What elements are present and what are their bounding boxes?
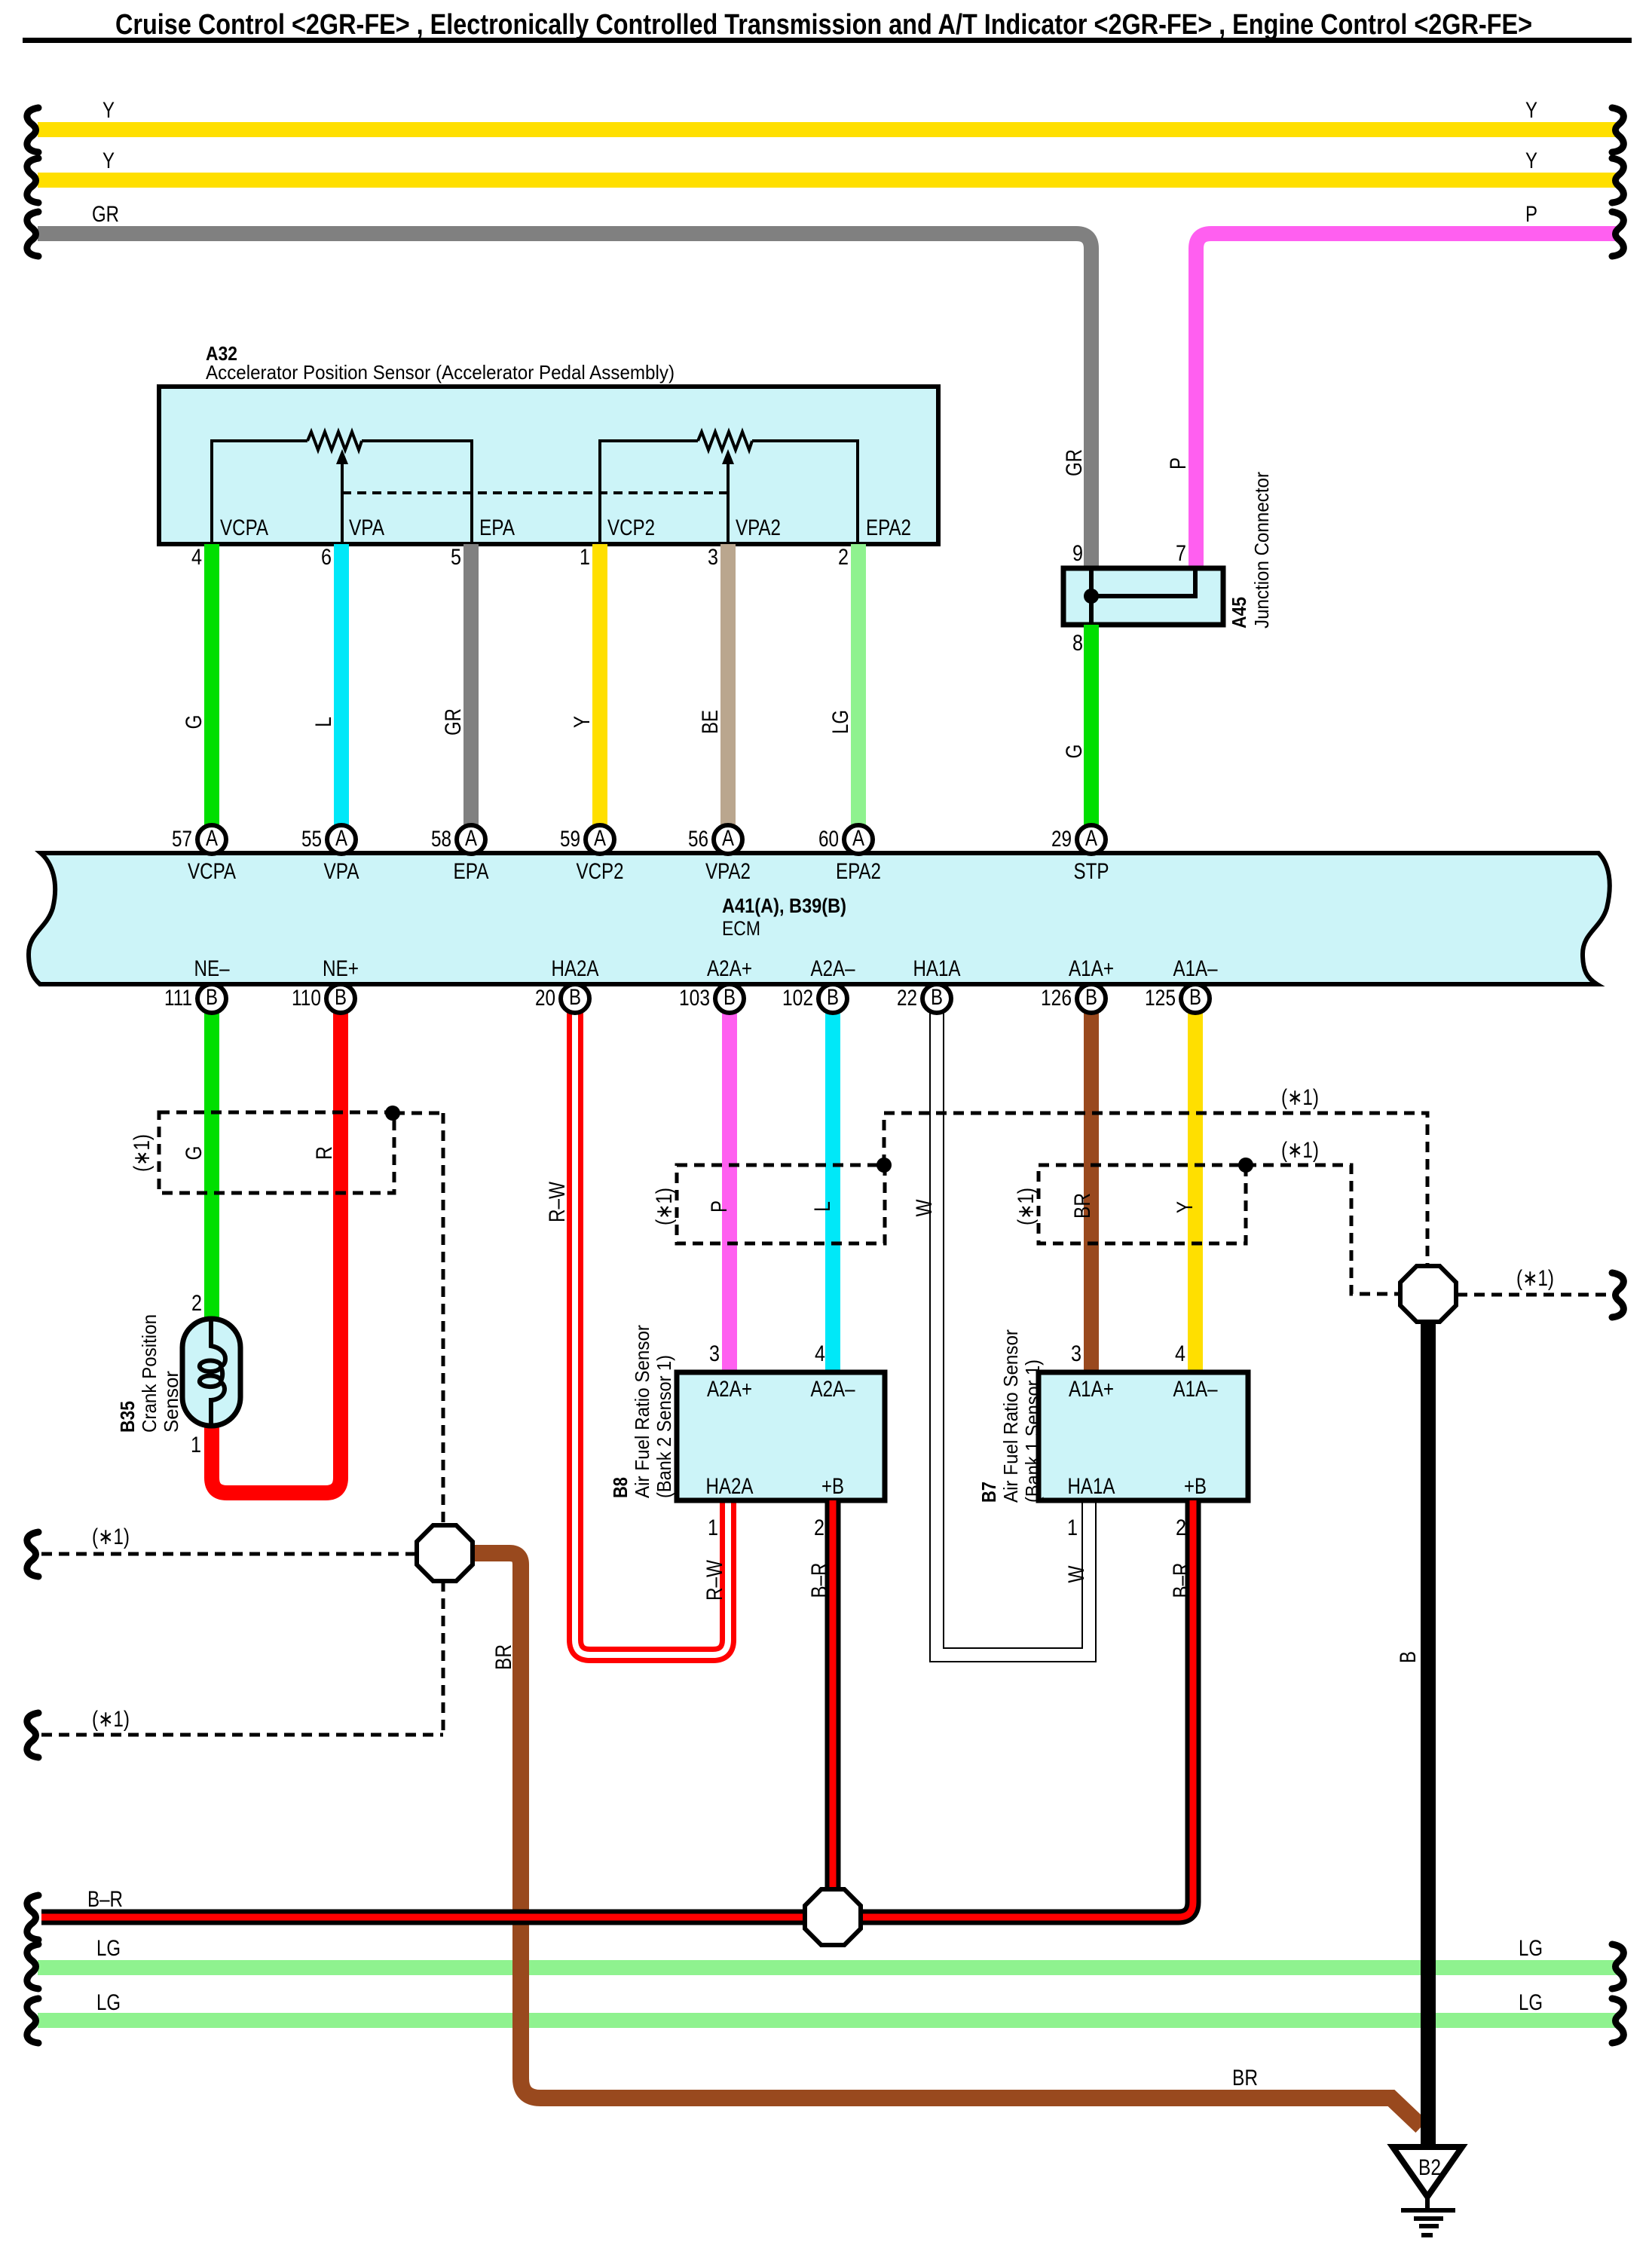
- wire R-W HA2A: [575, 1013, 728, 1655]
- svg-text:A2A–: A2A–: [811, 956, 855, 981]
- wire B-R from B8 +B: [825, 1500, 841, 1889]
- svg-text:8: 8: [1072, 631, 1083, 656]
- wire Y A1A-: [1188, 1013, 1203, 1372]
- svg-text:Y: Y: [102, 98, 115, 123]
- svg-text:VCP2: VCP2: [577, 859, 624, 884]
- octagon splice B-R: [805, 1889, 861, 1945]
- svg-text:HA1A: HA1A: [1068, 1474, 1115, 1499]
- wire BE VPA2: [720, 544, 736, 827]
- svg-text:A1A–: A1A–: [1173, 1377, 1218, 1402]
- svg-text:HA2A: HA2A: [706, 1474, 754, 1499]
- svg-text:1: 1: [580, 545, 590, 570]
- dashed route 1: [884, 1113, 1427, 1266]
- wire G VCPA: [204, 544, 219, 827]
- svg-text:NE–: NE–: [194, 956, 230, 981]
- svg-text:BR: BR: [1070, 1193, 1095, 1219]
- svg-text:2: 2: [1176, 1515, 1186, 1540]
- A32 Accelerator Position Sensor box: [159, 387, 938, 544]
- svg-text:+B: +B: [821, 1474, 844, 1499]
- svg-text:B: B: [1189, 985, 1201, 1010]
- B7 rotated label: [977, 1329, 1044, 1503]
- svg-text:22: 22: [897, 986, 917, 1011]
- svg-text:A2A–: A2A–: [811, 1377, 855, 1402]
- svg-text:A: A: [594, 826, 606, 851]
- svg-text:Junction Connector: Junction Connector: [1250, 472, 1273, 628]
- A45 internal junction dot: [1084, 589, 1099, 604]
- svg-text:STP: STP: [1074, 859, 1109, 884]
- svg-text:A: A: [335, 826, 347, 851]
- svg-text:R: R: [312, 1146, 337, 1160]
- svg-text:A: A: [206, 826, 218, 851]
- svg-text:Cruise Control <2GR-FE> , Elec: Cruise Control <2GR-FE> , Electronically…: [115, 9, 1532, 41]
- svg-text:1: 1: [191, 1433, 201, 1457]
- svg-text:(∗1): (∗1): [652, 1188, 677, 1225]
- svg-text:(∗1): (∗1): [1516, 1266, 1554, 1291]
- svg-text:P: P: [1166, 457, 1191, 469]
- svg-text:2: 2: [814, 1515, 824, 1540]
- svg-text:LG: LG: [1519, 1936, 1543, 1961]
- wire B-R main horizontal: [41, 1500, 1193, 1917]
- wiper arrow 2: [722, 449, 734, 464]
- svg-text:A: A: [1085, 826, 1097, 851]
- wire BR from splice: [469, 1553, 1421, 2127]
- ECM bottom pin numbers: [164, 986, 1176, 1011]
- svg-text:B: B: [724, 985, 736, 1010]
- wire GR EPA: [463, 544, 479, 827]
- svg-text:R–W: R–W: [702, 1559, 727, 1601]
- wire B to ground: [1421, 1320, 1436, 2147]
- svg-text:B2: B2: [1418, 2155, 1441, 2180]
- svg-text:2: 2: [191, 1291, 202, 1316]
- svg-text:EPA: EPA: [454, 859, 489, 884]
- svg-text:3: 3: [708, 545, 718, 570]
- svg-text:Accelerator Position Sensor (A: Accelerator Position Sensor (Accelerator…: [206, 361, 675, 384]
- ECM top pin numbers: [172, 827, 1072, 852]
- svg-text:Y: Y: [102, 148, 115, 173]
- svg-text:ECM: ECM: [722, 917, 760, 940]
- svg-text:(∗1): (∗1): [1281, 1085, 1319, 1110]
- svg-text:R–W: R–W: [545, 1181, 570, 1222]
- svg-text:(∗1): (∗1): [92, 1525, 130, 1549]
- svg-text:7: 7: [1176, 541, 1186, 566]
- svg-text:29: 29: [1051, 827, 1072, 852]
- svg-text:125: 125: [1145, 986, 1176, 1011]
- svg-text:(Bank 2 Sensor 1): (Bank 2 Sensor 1): [653, 1355, 675, 1498]
- svg-text:2: 2: [838, 545, 849, 570]
- svg-text:VPA: VPA: [324, 859, 359, 884]
- svg-text:102: 102: [782, 986, 813, 1011]
- ECM top connector circles (A): [197, 825, 1106, 854]
- svg-text:B: B: [206, 985, 218, 1010]
- svg-text:W: W: [912, 1199, 937, 1217]
- wire W HA1A: [937, 1013, 1089, 1655]
- B7 air fuel ratio sensor box: [1039, 1372, 1248, 1500]
- svg-text:Y: Y: [1525, 148, 1537, 173]
- dashed horizontal to octagon: [41, 1552, 417, 1556]
- A45 rotated label: [1228, 472, 1273, 628]
- A45 internal bus: [1091, 570, 1195, 622]
- svg-text:6: 6: [321, 545, 332, 570]
- svg-text:L: L: [810, 1201, 835, 1212]
- svg-text:VCPA: VCPA: [188, 859, 236, 884]
- dashed horizontal lower: [41, 1733, 443, 1737]
- svg-text:B7: B7: [977, 1482, 1000, 1503]
- svg-text:NE+: NE+: [323, 956, 359, 981]
- wire LG bottom 2: [38, 2013, 1619, 2028]
- svg-text:A1A+: A1A+: [1069, 1377, 1114, 1402]
- svg-text:VPA2: VPA2: [705, 859, 751, 884]
- svg-text:A41(A), B39(B): A41(A), B39(B): [722, 895, 846, 917]
- svg-text:(∗1): (∗1): [1014, 1188, 1039, 1225]
- svg-text:B8: B8: [609, 1477, 632, 1498]
- svg-text:G: G: [182, 715, 206, 729]
- octagon splice right: [1400, 1266, 1456, 1322]
- wire break symbols top left: [27, 108, 38, 152]
- dashed box left (*1) around G,R: [159, 1112, 394, 1193]
- svg-text:VPA: VPA: [349, 515, 384, 540]
- wire LG bottom 1: [38, 1960, 1619, 1975]
- wiper arrow 1: [336, 449, 348, 464]
- svg-text:A: A: [722, 826, 734, 851]
- svg-text:110: 110: [292, 986, 321, 1011]
- svg-text:A: A: [852, 826, 864, 851]
- svg-text:55: 55: [301, 827, 322, 852]
- svg-text:A2A+: A2A+: [707, 956, 752, 981]
- svg-text:Air Fuel Ratio Sensor: Air Fuel Ratio Sensor: [631, 1325, 653, 1498]
- svg-text:111: 111: [164, 986, 192, 1011]
- svg-text:EPA2: EPA2: [866, 515, 911, 540]
- break symbols bottom: [27, 1895, 38, 1940]
- svg-text:B: B: [1085, 985, 1097, 1010]
- svg-text:(∗1): (∗1): [1281, 1138, 1319, 1163]
- svg-text:Air Fuel Ratio Sensor: Air Fuel Ratio Sensor: [999, 1329, 1022, 1503]
- svg-text:LG: LG: [96, 1990, 121, 2015]
- svg-text:A1A–: A1A–: [1173, 956, 1218, 981]
- B8 rotated label: [609, 1325, 675, 1498]
- svg-text:A: A: [465, 826, 477, 851]
- potentiometer 2: [600, 432, 858, 544]
- dashed route 2: [1246, 1165, 1400, 1294]
- svg-text:1: 1: [708, 1515, 718, 1540]
- svg-text:B: B: [335, 985, 347, 1010]
- wire GR bus: [38, 234, 1091, 570]
- svg-text:126: 126: [1041, 986, 1072, 1011]
- svg-text:1: 1: [1067, 1515, 1078, 1540]
- svg-text:4: 4: [1175, 1341, 1185, 1366]
- svg-text:B35: B35: [116, 1401, 139, 1433]
- svg-text:B–R: B–R: [87, 1887, 123, 1912]
- svg-text:EPA2: EPA2: [836, 859, 881, 884]
- svg-text:BR: BR: [1232, 2066, 1258, 2090]
- svg-text:A1A+: A1A+: [1069, 956, 1114, 981]
- svg-text:57: 57: [172, 827, 192, 852]
- wire R NE+ below ECM: [212, 1013, 341, 1493]
- svg-text:L: L: [311, 717, 336, 727]
- svg-text:9: 9: [1072, 541, 1083, 566]
- svg-text:P: P: [707, 1200, 732, 1213]
- svg-text:(∗1): (∗1): [92, 1707, 130, 1732]
- title underline: [23, 38, 1632, 43]
- svg-text:B: B: [569, 985, 581, 1010]
- wire Y VCP2: [592, 544, 607, 827]
- svg-text:LG: LG: [1519, 1990, 1543, 2015]
- svg-text:Y: Y: [570, 716, 595, 728]
- wire Y bus 2: [38, 173, 1619, 188]
- svg-text:VPA2: VPA2: [736, 515, 781, 540]
- wire P A2A+: [722, 1013, 737, 1372]
- svg-text:58: 58: [431, 827, 451, 852]
- wire BR A1A+: [1084, 1013, 1099, 1372]
- dashed vertical line: [442, 1113, 445, 1525]
- svg-text:103: 103: [679, 986, 710, 1011]
- svg-text:20: 20: [535, 986, 555, 1011]
- potentiometer 1: [212, 432, 472, 544]
- ground symbol B2: [1393, 2147, 1462, 2197]
- wire LG EPA2: [851, 544, 866, 827]
- svg-text:Sensor: Sensor: [160, 1371, 182, 1433]
- svg-text:GR: GR: [92, 202, 119, 227]
- svg-text:LG: LG: [828, 710, 853, 734]
- wire G NE- below ECM: [204, 1013, 219, 1319]
- svg-text:B: B: [827, 985, 839, 1010]
- octagon splice 1: [417, 1525, 473, 1581]
- svg-text:A2A+: A2A+: [707, 1377, 752, 1402]
- svg-text:3: 3: [1071, 1341, 1081, 1366]
- svg-text:GR: GR: [441, 708, 466, 736]
- svg-text:60: 60: [818, 827, 839, 852]
- svg-text:P: P: [1525, 202, 1537, 227]
- wire G STP: [1084, 625, 1099, 827]
- svg-text:G: G: [1062, 745, 1087, 759]
- wire L VPA: [334, 544, 349, 827]
- svg-text:W: W: [1064, 1565, 1089, 1583]
- svg-text:(∗1): (∗1): [130, 1134, 154, 1172]
- svg-text:HA1A: HA1A: [913, 956, 961, 981]
- svg-text:A45: A45: [1228, 597, 1250, 628]
- svg-text:HA2A: HA2A: [552, 956, 599, 981]
- svg-text:4: 4: [815, 1341, 825, 1366]
- svg-text:56: 56: [688, 827, 708, 852]
- svg-text:Y: Y: [1173, 1201, 1198, 1213]
- svg-text:BE: BE: [698, 710, 723, 734]
- A45 junction connector box: [1063, 568, 1223, 625]
- svg-text:B: B: [1396, 1651, 1421, 1663]
- svg-text:59: 59: [560, 827, 580, 852]
- svg-text:(Bank 1 Sensor 1): (Bank 1 Sensor 1): [1021, 1359, 1044, 1503]
- B35 coil symbol: [200, 1320, 225, 1424]
- svg-text:VCPA: VCPA: [220, 515, 268, 540]
- dashed wiper link: [342, 491, 728, 494]
- wire P bus: [1196, 234, 1617, 570]
- B35 rotated label: [116, 1314, 182, 1433]
- dashed link to vertical: [394, 1112, 443, 1115]
- svg-text:5: 5: [451, 545, 461, 570]
- wire Y bus 1: [38, 122, 1619, 137]
- junction dot on dashed box: [385, 1106, 400, 1121]
- wire L A2A-: [825, 1013, 840, 1372]
- ECM box: [29, 853, 1610, 984]
- svg-text:LG: LG: [96, 1936, 121, 1961]
- svg-text:4: 4: [191, 545, 202, 570]
- svg-text:+B: +B: [1184, 1474, 1207, 1499]
- dashed boxes middle/right: [677, 1165, 885, 1243]
- svg-text:EPA: EPA: [479, 515, 515, 540]
- svg-text:3: 3: [709, 1341, 720, 1366]
- svg-text:B: B: [931, 985, 943, 1010]
- svg-text:G: G: [182, 1146, 206, 1161]
- svg-text:Y: Y: [1525, 98, 1537, 123]
- B35 crank position sensor: [182, 1319, 240, 1426]
- ECM bottom connector circles (B): [197, 984, 1210, 1013]
- svg-text:Crank Position: Crank Position: [138, 1314, 161, 1433]
- svg-text:VCP2: VCP2: [607, 515, 655, 540]
- break symbols left dashed: [27, 1532, 38, 1577]
- svg-text:GR: GR: [1062, 449, 1087, 476]
- dashed route 3: [1457, 1293, 1617, 1297]
- B8 air fuel ratio sensor box: [677, 1372, 885, 1500]
